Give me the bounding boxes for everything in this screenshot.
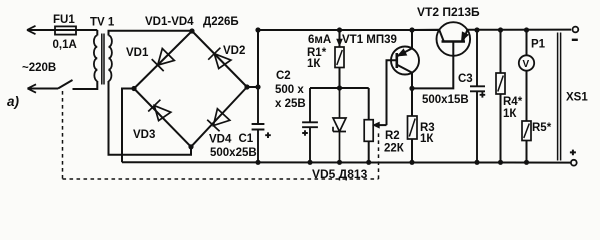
terminal minus [573, 27, 579, 33]
wire secondary top to bridge top [109, 31, 193, 36]
wire R1 bottom lead [339, 68, 341, 89]
svg-text:C2: C2 [276, 70, 291, 82]
bridge edge bottom-right [191, 87, 247, 147]
wire bus y88 [310, 87, 369, 89]
wire top rail output segment [467, 29, 571, 31]
junction bottom rail at C1 [255, 160, 260, 165]
plus sign XS1 [570, 150, 576, 156]
svg-text:VT1 МП39: VT1 МП39 [342, 34, 397, 46]
capacitor C1 [252, 87, 265, 162]
wire primary top lead [96, 30, 98, 36]
wire top rail input segment [258, 29, 439, 31]
potentiometer R2 [368, 88, 370, 120]
transistor VT2 П213Б [437, 22, 471, 56]
wire secondary bottom to bridge bottom [109, 81, 192, 155]
svg-text:а): а) [7, 94, 20, 109]
junction C1 riser [255, 84, 260, 89]
capacitor C2 [302, 88, 318, 162]
mechanical link dashed [63, 91, 379, 179]
diode VD2 [208, 48, 231, 69]
svg-text:x 25В: x 25В [275, 98, 306, 110]
svg-text:R5*: R5* [532, 122, 552, 134]
junction bottom rail at R3 [409, 160, 414, 165]
zener diode VD5 [333, 88, 346, 162]
svg-text:Д226Б: Д226Б [203, 16, 239, 28]
svg-text:VD4: VD4 [209, 134, 232, 146]
junction node VD5 top [337, 85, 342, 90]
voltmeter P1 [526, 30, 528, 55]
terminal plus [571, 160, 577, 166]
wire VT1 base to R2 wiper [387, 60, 397, 125]
junction bottom rail at C3 [474, 160, 479, 165]
svg-text:VD5 Д813: VD5 Д813 [312, 167, 368, 181]
svg-text:1К: 1К [307, 58, 321, 70]
wire C1 riser [257, 30, 259, 87]
svg-text:TV 1: TV 1 [90, 17, 115, 29]
junction bridge bottom vertex [188, 144, 193, 149]
junction bottom rail at C2 [307, 160, 312, 165]
mains bottom arrow [28, 84, 37, 92]
current arrow 6mA [337, 39, 342, 46]
svg-text:500x25В: 500x25В [210, 147, 257, 159]
junction top rail at VT1 emitter [409, 27, 414, 32]
svg-text:VD2: VD2 [223, 45, 245, 57]
junction bottom rail at R5 [524, 160, 529, 165]
junction node VT1 collector [409, 86, 414, 91]
diode VD3 [148, 100, 171, 121]
R2 wiper arrow [377, 124, 387, 126]
junction bridge right vertex [244, 84, 249, 89]
svg-text:500x15В: 500x15В [422, 94, 469, 106]
junction bottom rail at VD5 [337, 160, 342, 165]
transformer TV1 secondary winding [109, 36, 112, 82]
junction top rail at C1 [255, 27, 260, 32]
svg-text:VD1-VD4: VD1-VD4 [145, 16, 194, 28]
svg-text:C1: C1 [239, 133, 254, 145]
svg-text:~220В: ~220В [22, 62, 56, 74]
transformer core [102, 34, 104, 85]
svg-text:1К: 1К [503, 108, 517, 120]
wire VT2 collector lead [412, 29, 439, 31]
junction top rail at P1 [524, 27, 529, 32]
plus sign C2 [302, 130, 308, 136]
junction bottom rail at R2 [366, 160, 371, 165]
bridge edge top-right [192, 31, 247, 87]
svg-text:VT2 П213Б: VT2 П213Б [417, 5, 480, 19]
bridge edge top-left [134, 31, 192, 89]
resistor R4 [500, 30, 502, 73]
svg-text:R4*: R4* [503, 96, 523, 108]
resistor R5 [522, 121, 531, 141]
junction top rail at C3 [474, 27, 479, 32]
transformer TV1 primary winding [94, 36, 97, 82]
resistor R3 [411, 88, 413, 116]
diode VD4 [207, 109, 230, 132]
plus sign C3 [480, 92, 486, 98]
fuse FU1 [55, 26, 76, 34]
junction bottom rail at R4 [498, 160, 503, 165]
resistor R1 [335, 47, 344, 68]
junction top rail at R1 [337, 27, 342, 32]
svg-text:0,1A: 0,1A [53, 39, 77, 51]
wire mains bottom line [28, 88, 59, 90]
mains top arrow [27, 26, 36, 34]
wire R1 top lead [339, 30, 341, 47]
svg-text:R2: R2 [385, 130, 400, 142]
wire bottom rail [122, 161, 571, 163]
wire bridge right vertex stub [247, 86, 258, 88]
svg-text:22К: 22К [384, 143, 405, 155]
svg-text:500 x: 500 x [275, 84, 304, 96]
wire VT1 collector to VT2 base [412, 42, 453, 89]
svg-text:FU1: FU1 [53, 14, 75, 26]
switch SA blade [58, 80, 73, 89]
capacitor C3 [470, 30, 485, 162]
plus sign C1 [265, 132, 271, 138]
svg-text:C3: C3 [458, 73, 473, 85]
svg-text:VD3: VD3 [133, 129, 155, 141]
svg-text:6мА: 6мА [308, 34, 331, 46]
connector XS1 bar [558, 33, 561, 161]
svg-text:V: V [523, 59, 530, 70]
diode VD1 [152, 49, 175, 72]
wire mains top line [27, 29, 97, 31]
wire bridge left vertex to bottom rail [122, 89, 134, 163]
minus sign XS1 [572, 39, 578, 41]
svg-text:P1: P1 [531, 39, 546, 51]
svg-text:1К: 1К [420, 133, 434, 145]
bridge edge left-bottom [134, 89, 191, 147]
junction top rail at R4 [498, 27, 503, 32]
transistor VT1 МП39 [391, 47, 419, 75]
svg-text:XS1: XS1 [566, 92, 588, 104]
svg-text:VD1: VD1 [126, 47, 149, 59]
junction bridge top vertex [189, 28, 194, 33]
junction bridge left vertex [131, 86, 136, 91]
wire switch to transformer [73, 81, 98, 89]
